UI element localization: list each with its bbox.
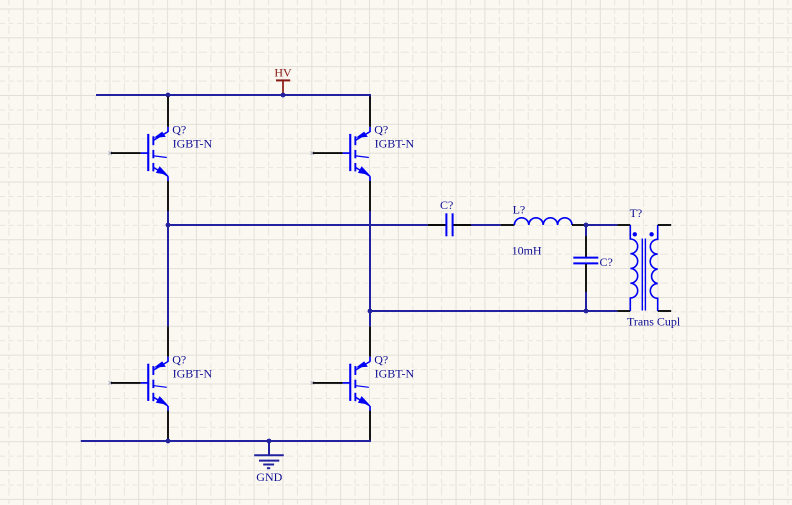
junction at HV / top rail bbox=[281, 93, 286, 98]
transformer T1 bbox=[617, 206, 681, 329]
wire C2 top node to T1 bbox=[586, 224, 617, 226]
junction at Q3 emitter / bottom rail bbox=[166, 439, 171, 444]
wire top rail bbox=[96, 95, 370, 99]
inductor L1 bbox=[501, 203, 586, 258]
junction at GND / bottom rail bbox=[267, 439, 272, 444]
junction at Q1 collector bbox=[166, 93, 171, 98]
wire bottom rail bbox=[81, 440, 370, 441]
svg-text:Trans Cupl: Trans Cupl bbox=[627, 315, 681, 329]
svg-text:C?: C? bbox=[600, 255, 613, 269]
svg-text:C?: C? bbox=[440, 198, 453, 212]
junction at left bridge node bbox=[166, 223, 171, 228]
svg-text:HV: HV bbox=[274, 65, 292, 79]
capacitor C2 bbox=[573, 225, 613, 311]
junction at C2 bottom node bbox=[584, 309, 589, 314]
junction at right bridge node bbox=[368, 309, 373, 314]
transistor Q2 bbox=[310, 97, 414, 212]
wire left bridge node to C1 bbox=[168, 224, 428, 226]
wire right bridge node to C2 bottom bbox=[370, 310, 586, 312]
capacitor C1 bbox=[428, 198, 471, 237]
wire C2 bottom node to T1 bbox=[586, 310, 617, 312]
transistor Q4 bbox=[310, 326, 414, 441]
wire right bridge node vertical bbox=[369, 211, 371, 326]
svg-text:T?: T? bbox=[630, 206, 643, 220]
power port HV bbox=[274, 65, 292, 95]
svg-text:L?: L? bbox=[513, 203, 526, 217]
wire left bridge node vertical bbox=[167, 211, 169, 326]
junction at L1 / C2 top bbox=[584, 223, 589, 228]
svg-text:GND: GND bbox=[256, 470, 282, 484]
transistor Q1 bbox=[108, 97, 212, 212]
wire C1 to L1 bbox=[471, 224, 501, 226]
transistor Q3 bbox=[108, 326, 212, 441]
svg-text:10mH: 10mH bbox=[512, 244, 542, 258]
ground GND bbox=[254, 441, 284, 484]
